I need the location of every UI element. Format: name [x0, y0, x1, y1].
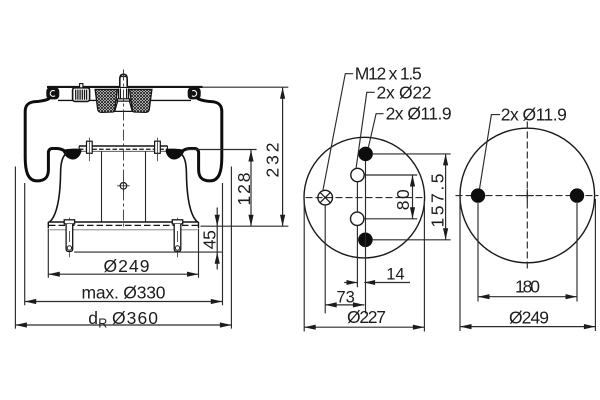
svg-text:157.5: 157.5	[428, 174, 448, 228]
dim 14	[344, 282, 410, 284]
washer	[117, 99, 129, 101]
svg-text:Ø249: Ø249	[104, 256, 150, 276]
svg-text:Ø227: Ø227	[347, 307, 386, 327]
dim dR Ø360	[15, 167, 231, 329]
bellows outer wall right	[180, 99, 222, 181]
piston column	[102, 151, 146, 222]
bellows clamp wedge right	[166, 149, 185, 160]
svg-text:45: 45	[200, 230, 220, 249]
extension line 232 top	[203, 86, 289, 88]
bead right	[188, 87, 201, 99]
svg-text:128: 128	[234, 173, 254, 206]
stud right	[172, 220, 182, 224]
svg-text:180: 180	[515, 277, 540, 297]
svg-text:2x Ø22: 2x Ø22	[377, 82, 432, 102]
bumper hatched left	[95, 89, 117, 112]
leader Ø22	[356, 92, 375, 169]
Ø11.9 holes	[358, 147, 373, 162]
dashed centerlines	[526, 122, 528, 270]
dim Ø227	[304, 201, 424, 332]
piston tab right	[155, 141, 161, 153]
top plate bottom line	[58, 99, 191, 101]
dim 80	[412, 175, 414, 219]
bumper hatched right	[130, 89, 152, 112]
svg-text:Ø360: Ø360	[112, 308, 158, 328]
svg-text:max. Ø330: max. Ø330	[82, 282, 166, 302]
bellows clamp wedge left	[62, 149, 81, 160]
svg-text:2x Ø11.9: 2x Ø11.9	[501, 105, 567, 125]
dim 128	[250, 150, 252, 226]
bellows outer wall left	[25, 99, 67, 181]
svg-text:d: d	[88, 308, 98, 328]
svg-text:14: 14	[386, 265, 404, 283]
svg-text:232: 232	[263, 143, 283, 178]
svg-text:M12 x 1.5: M12 x 1.5	[355, 64, 422, 84]
ext line 128	[187, 149, 257, 151]
svg-text:80: 80	[393, 189, 413, 210]
Ø11.9 holes	[471, 188, 485, 202]
svg-text:R: R	[98, 316, 107, 330]
dim max Ø330	[25, 183, 223, 305]
dim Ø249 right	[460, 199, 595, 331]
dim 180	[478, 203, 577, 302]
leader Ø11.9 right	[480, 115, 501, 189]
svg-text:2x Ø11.9: 2x Ø11.9	[386, 104, 452, 124]
top plate top line	[47, 86, 203, 88]
dim Ø249	[48, 229, 198, 278]
leader Ø11.9	[368, 114, 383, 148]
vertical ext lines	[365, 161, 367, 313]
M12 port symbol	[318, 190, 333, 205]
piston top plate	[79, 145, 168, 147]
svg-text:73: 73	[337, 289, 355, 307]
base plate	[48, 221, 198, 223]
dim 73	[325, 304, 364, 306]
pedestal	[115, 101, 133, 111]
circle outline	[304, 137, 425, 258]
svg-text:Ø249: Ø249	[509, 307, 549, 327]
piston skirt right	[180, 153, 198, 223]
ext line stud bottom (45)	[74, 251, 222, 253]
blind hole crosshair	[120, 183, 127, 190]
ext line bottom (128/232/45)	[201, 225, 289, 227]
piston skirt left	[49, 153, 67, 223]
horizontal ext lines	[373, 154, 451, 240]
piston tab left	[87, 141, 93, 153]
dim 232	[282, 87, 284, 226]
bead left	[46, 87, 59, 99]
dim 45	[216, 208, 218, 270]
leader M12	[323, 74, 353, 191]
bolt above plate	[120, 74, 127, 87]
air fitting	[73, 88, 90, 102]
circle outline	[460, 128, 595, 263]
Ø22 holes	[351, 168, 364, 181]
stud left	[64, 220, 74, 224]
dashed centerline	[306, 197, 424, 199]
centerline	[122, 70, 124, 231]
dim 157.5	[445, 154, 447, 240]
nut below plate	[118, 89, 128, 99]
center cross right circle	[521, 189, 534, 202]
